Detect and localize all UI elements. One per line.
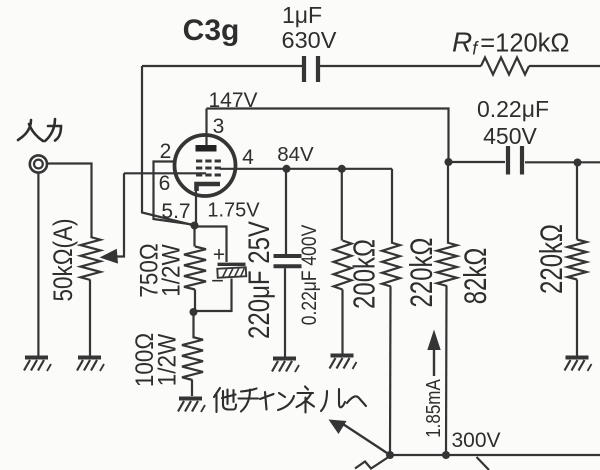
wire: top feedback line right segment (Rf to edge) xyxy=(529,65,600,67)
wire: cathode pin down to node xyxy=(195,190,197,226)
node: output right junction xyxy=(574,159,582,167)
svg-text:0.22μF: 0.22μF xyxy=(477,96,549,122)
node: 84V 200k junction xyxy=(338,165,346,173)
wire: wiper to grid line xyxy=(113,173,124,256)
svg-text:−: − xyxy=(211,268,224,293)
svg-text:200kΩ: 200kΩ xyxy=(347,239,382,309)
resistor 220k middle xyxy=(391,169,393,243)
wire: output line to coupling cap xyxy=(449,161,506,163)
capacitor 1uF 630V xyxy=(304,56,318,82)
tube cathode bracket xyxy=(197,184,221,191)
wire: jack to pot top xyxy=(48,164,92,238)
input label 入力 (drawn strokes) xyxy=(18,119,61,141)
ground 0.22uF 400V xyxy=(272,359,299,373)
ground 100 ohm xyxy=(178,399,205,413)
capacitor 0.22uF 450V xyxy=(508,146,522,175)
svg-text:4: 4 xyxy=(242,146,254,169)
wire: top feedback line left segment (to 1uF cap) xyxy=(142,65,302,67)
resistor 100 ohm xyxy=(192,312,194,337)
wire: grid line into tube (pin 6) xyxy=(124,172,206,174)
label 他チャンネルへ (drawn strokes) xyxy=(214,387,366,413)
wire: screen line pin 4 xyxy=(220,168,392,170)
svg-text:82kΩ: 82kΩ xyxy=(458,248,493,305)
node: plate/output junction xyxy=(445,158,453,166)
node: lower cathode junction xyxy=(190,308,198,316)
ground 220k right xyxy=(565,358,592,372)
resistor 750 ohm xyxy=(193,226,195,247)
svg-text:5.7: 5.7 xyxy=(161,200,190,223)
ground pot xyxy=(77,358,104,372)
svg-text:220kΩ: 220kΩ xyxy=(404,238,439,308)
node: 84V cap junction xyxy=(283,165,291,173)
wire stub below 300V line right xyxy=(477,457,490,470)
tube grid dashes xyxy=(196,160,221,177)
svg-text:1μF: 1μF xyxy=(282,2,322,28)
wire: cathode node to bypass cap xyxy=(195,227,227,263)
wire: pot bottom to ground xyxy=(89,280,91,356)
wire: 147V plate line to output node xyxy=(207,109,449,163)
svg-text:300V: 300V xyxy=(451,429,500,452)
svg-text:450V: 450V xyxy=(483,123,537,149)
current arrow 1.85mA xyxy=(427,330,440,377)
tube C3g envelope xyxy=(175,135,236,196)
svg-text:2: 2 xyxy=(160,140,172,163)
svg-text:630V: 630V xyxy=(282,27,337,53)
wire: 300V supply line xyxy=(390,454,600,456)
svg-text:1/2W: 1/2W xyxy=(157,244,185,297)
svg-text:220kΩ: 220kΩ xyxy=(534,224,569,294)
resistor Rf 120k (horizontal zigzag) xyxy=(481,58,529,75)
ground 200k xyxy=(330,356,357,370)
resistor 200k xyxy=(341,169,343,241)
wire stub below 300V line left xyxy=(355,456,390,469)
wire: feedback vertical down-left, to cathode node xyxy=(142,66,195,226)
wire: cap to right edge xyxy=(525,161,600,163)
svg-text:84V: 84V xyxy=(277,143,314,166)
svg-text:220μF 25V: 220μF 25V xyxy=(243,221,276,339)
svg-text:+: + xyxy=(213,244,225,267)
pot wiper arrow xyxy=(100,249,119,264)
svg-text:1/2W: 1/2W xyxy=(153,333,181,386)
wire: cap bottom to lower cathode node xyxy=(194,279,232,312)
capacitor 220uF 25V electrolytic xyxy=(217,264,246,277)
svg-text:6: 6 xyxy=(159,172,171,195)
potentiometer 50k(A) xyxy=(81,237,101,280)
wire: top feedback line middle segment (cap to Rf) xyxy=(320,65,481,67)
svg-text:1.75V: 1.75V xyxy=(207,200,260,222)
svg-text:1.85mA: 1.85mA xyxy=(422,379,445,438)
arrow: to other channel xyxy=(341,423,390,455)
node: cathode junction xyxy=(191,222,199,230)
svg-text:50kΩ(A): 50kΩ(A) xyxy=(49,218,78,301)
wire: jack shell to ground xyxy=(37,173,39,356)
capacitor 0.22uF 400V xyxy=(285,169,287,254)
resistor 220k right xyxy=(576,163,578,240)
svg-text:Rf=120kΩ: Rf=120kΩ xyxy=(452,27,570,59)
svg-text:3: 3 xyxy=(213,115,225,138)
resistor 82k xyxy=(447,162,449,243)
wire: pin 2 bracket to cathode node xyxy=(154,162,195,225)
tube anode (filled plate) xyxy=(196,145,217,152)
svg-text:0.22μF 400V: 0.22μF 400V xyxy=(299,225,322,326)
svg-text:C3g: C3g xyxy=(183,14,240,47)
input jack terminal xyxy=(30,155,47,172)
node: 300V line right junction xyxy=(442,451,450,459)
wire: plate pin 3 up xyxy=(205,109,207,146)
node: 300V line left junction xyxy=(386,451,394,459)
ground input xyxy=(24,358,51,372)
